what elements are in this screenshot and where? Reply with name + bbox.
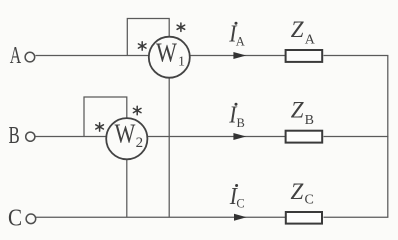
wattmeter W2 [106,118,147,159]
svg-text:W: W [114,119,136,149]
wire: line B segment from terminal to W2 [36,136,107,138]
impedance Z_A [286,50,323,62]
impedance Z_C [286,212,322,224]
svg-text:B: B [8,123,19,148]
svg-text:2: 2 [136,135,144,151]
wattmeter W1 label [156,39,185,70]
wire: line B segment from Z_B to right bus [324,136,389,138]
current arrow I_C [234,214,247,221]
wire: W2 bottom lead down to line C [126,159,128,217]
W1 polarity asterisk (left, on line A) [138,42,146,50]
svg-text:Z: Z [291,17,304,42]
svg-text:Z: Z [291,179,304,204]
wire: line C segment from terminal to Z_C [36,216,285,218]
current arrow I_B [233,133,246,140]
impedance Z_A label [291,17,316,47]
svg-text:B: B [237,116,245,130]
wire: line A segment from terminal to W1 [36,55,149,57]
svg-text:C: C [8,204,22,231]
wire: W1 voltage-coil loop from line A up and over to W1 top [127,19,169,56]
wire: line A segment from Z_A to right bus [324,55,389,57]
impedance Z_B [286,131,323,143]
svg-text:A: A [305,32,316,47]
W2 polarity asterisk (top right, voltage coil) [133,106,141,114]
wire: line A segment from W1 to Z_A [190,55,285,57]
current label I_A (phasor dot) [228,20,244,48]
current arrow I_A [233,52,246,59]
wattmeter W2 label [114,119,143,151]
terminal B [26,132,35,141]
svg-text:B: B [305,113,314,128]
impedance Z_C label [291,179,314,208]
current label I_C (phasor dot) [229,183,245,211]
svg-text:A: A [10,43,22,69]
wire: line B segment from W2 to Z_B [148,136,285,138]
impedance Z_B label [291,98,314,128]
svg-text:C: C [236,197,244,211]
svg-text:Z: Z [291,98,304,123]
terminal C [26,214,36,224]
wire: W2 voltage-coil loop from line B up and over to W2 top [84,97,127,137]
W2 polarity asterisk (left, on line B) [96,123,104,131]
current label I_B (phasor dot) [228,101,244,129]
svg-text:A: A [236,34,245,48]
wire: line C segment from Z_C to right bus [324,216,389,218]
W1 polarity asterisk (top right, voltage coil) [177,23,185,31]
svg-text:1: 1 [178,55,185,70]
svg-text:W: W [156,39,178,69]
wire: W1 bottom lead down to line C [168,78,170,217]
wattmeter W1 [149,37,190,78]
svg-text:C: C [305,193,314,208]
wire: right vertical bus (common node) [387,56,389,218]
terminal A [25,52,35,62]
